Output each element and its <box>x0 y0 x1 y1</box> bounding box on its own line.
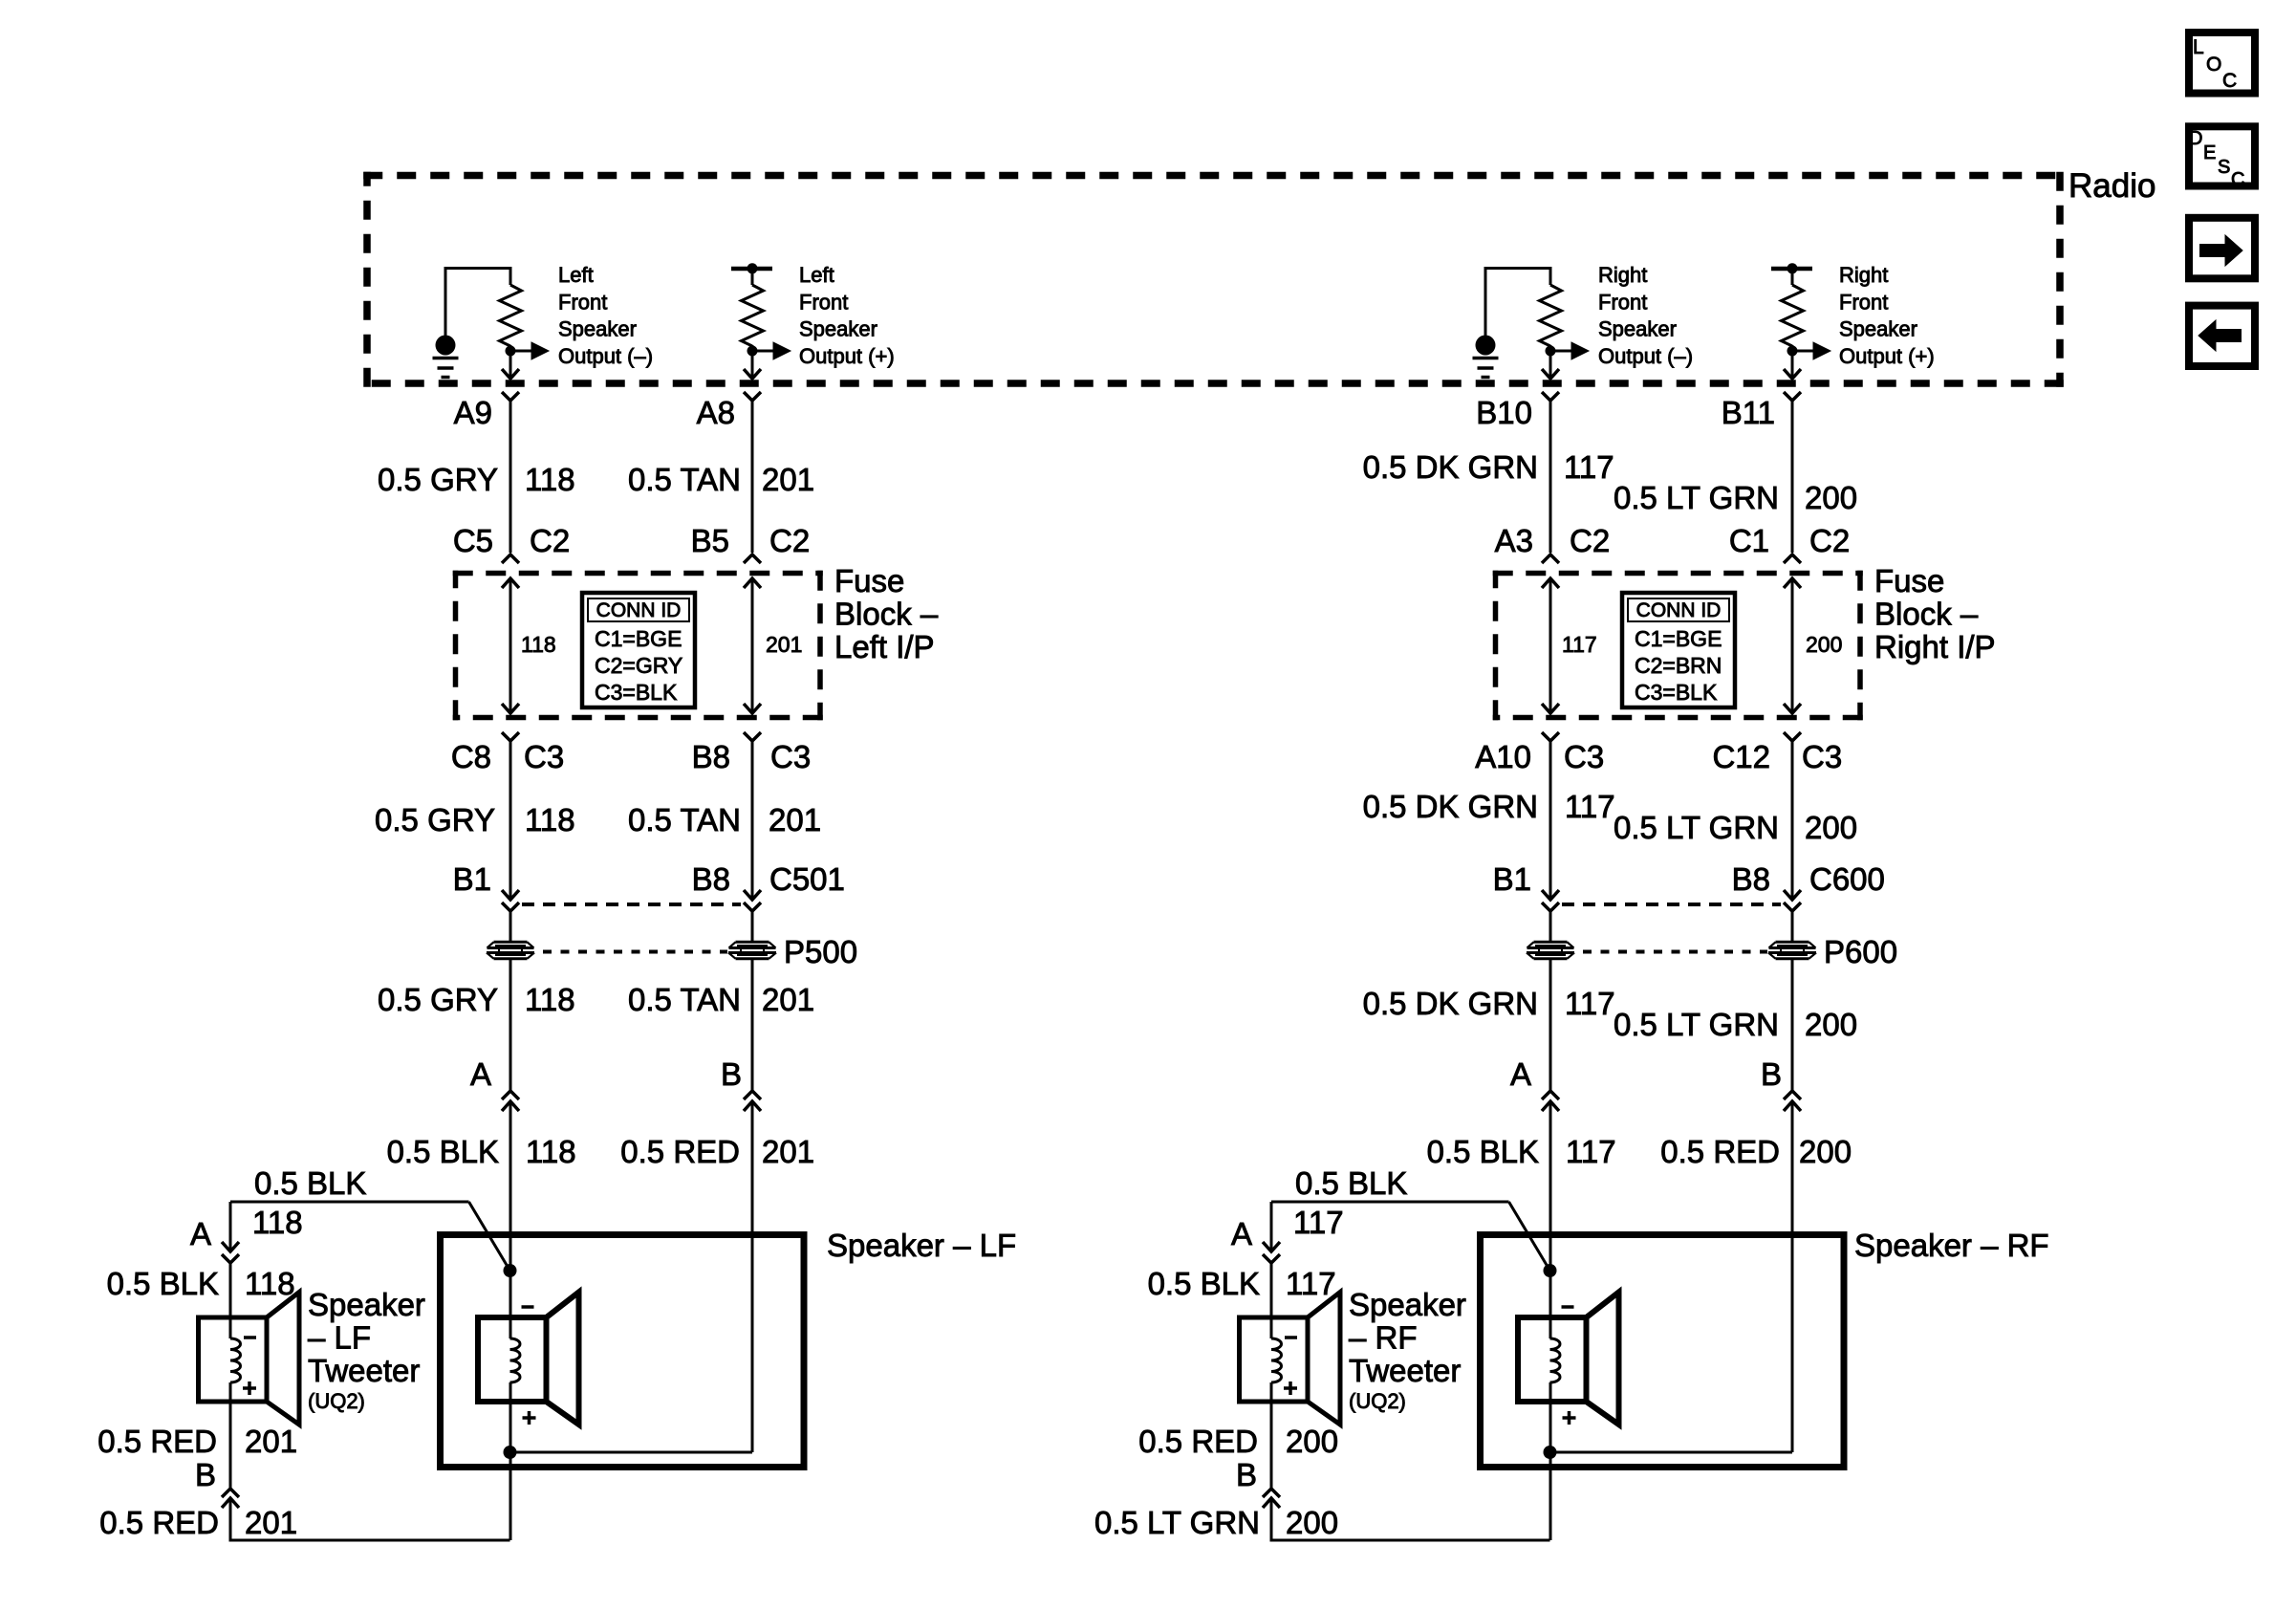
svg-text:0.5 BLK: 0.5 BLK <box>254 1165 366 1201</box>
svg-text:Tweeter: Tweeter <box>308 1353 420 1388</box>
svg-text:Output (+): Output (+) <box>799 344 895 368</box>
svg-text:200: 200 <box>1286 1424 1338 1459</box>
svg-text:117: 117 <box>1565 789 1615 824</box>
svg-text:P500: P500 <box>784 934 857 969</box>
svg-text:0.5 RED: 0.5 RED <box>99 1505 219 1540</box>
svg-text:B11: B11 <box>1722 395 1775 430</box>
svg-text:C8: C8 <box>451 739 491 774</box>
svg-text:200: 200 <box>1286 1505 1338 1540</box>
svg-text:117: 117 <box>1293 1205 1344 1240</box>
svg-text:Left: Left <box>558 263 594 287</box>
svg-text:0.5 TAN: 0.5 TAN <box>628 802 741 838</box>
svg-text:201: 201 <box>766 632 802 657</box>
svg-text:Right: Right <box>1598 263 1647 287</box>
svg-text:118: 118 <box>525 462 575 497</box>
svg-text:117: 117 <box>1564 449 1614 485</box>
svg-text:A: A <box>470 1056 491 1092</box>
svg-text:200: 200 <box>1806 632 1842 657</box>
svg-text:200: 200 <box>1805 1007 1857 1042</box>
svg-text:C2: C2 <box>530 523 570 558</box>
svg-text:Fuse: Fuse <box>1874 563 1944 598</box>
svg-text:(UQ2): (UQ2) <box>308 1389 365 1413</box>
svg-text:O: O <box>2206 54 2221 76</box>
svg-text:Output (–): Output (–) <box>558 344 653 368</box>
svg-text:0.5 DK GRN: 0.5 DK GRN <box>1363 789 1538 824</box>
svg-text:C: C <box>2222 70 2237 92</box>
svg-text:Speaker: Speaker <box>558 317 637 341</box>
svg-text:D: D <box>2189 128 2202 149</box>
svg-text:C: C <box>2231 169 2244 190</box>
svg-text:0.5 DK GRN: 0.5 DK GRN <box>1363 986 1538 1021</box>
svg-text:200: 200 <box>1799 1134 1852 1169</box>
svg-text:200: 200 <box>1805 810 1857 845</box>
svg-text:B8: B8 <box>1732 861 1770 897</box>
svg-text:Block –: Block – <box>834 597 939 632</box>
svg-text:0.5 BLK: 0.5 BLK <box>107 1266 219 1301</box>
svg-text:118: 118 <box>525 982 575 1017</box>
svg-text:C12: C12 <box>1712 739 1770 774</box>
svg-text:0.5 LT GRN: 0.5 LT GRN <box>1614 810 1779 845</box>
svg-text:117: 117 <box>1562 632 1597 657</box>
svg-text:Block –: Block – <box>1874 597 1979 632</box>
svg-text:C5: C5 <box>453 523 493 558</box>
svg-text:0.5 BLK: 0.5 BLK <box>1148 1266 1260 1301</box>
svg-text:Output (–): Output (–) <box>1598 344 1693 368</box>
svg-text:Left: Left <box>799 263 834 287</box>
svg-text:118: 118 <box>245 1266 295 1301</box>
svg-text:Front: Front <box>1839 290 1888 314</box>
svg-text:Front: Front <box>558 290 607 314</box>
svg-text:C1=BGE: C1=BGE <box>1635 626 1722 651</box>
svg-text:0.5 DK GRN: 0.5 DK GRN <box>1363 449 1538 485</box>
svg-text:201: 201 <box>762 462 814 497</box>
svg-text:0.5 RED: 0.5 RED <box>1660 1134 1780 1169</box>
svg-text:B: B <box>1236 1457 1257 1492</box>
svg-text:Fuse: Fuse <box>834 563 904 598</box>
svg-text:Front: Front <box>799 290 848 314</box>
svg-text:C2: C2 <box>1809 523 1850 558</box>
svg-text:C3: C3 <box>1802 739 1842 774</box>
svg-text:0.5 TAN: 0.5 TAN <box>628 462 741 497</box>
svg-text:0.5 LT GRN: 0.5 LT GRN <box>1614 480 1779 515</box>
svg-text:B5: B5 <box>691 523 729 558</box>
svg-text:0.5 GRY: 0.5 GRY <box>375 802 495 838</box>
svg-text:Right I/P: Right I/P <box>1874 629 1996 664</box>
svg-text:S: S <box>2218 157 2230 178</box>
svg-text:E: E <box>2203 142 2216 163</box>
svg-text:Tweeter: Tweeter <box>1349 1353 1461 1388</box>
svg-text:0.5 BLK: 0.5 BLK <box>1427 1134 1539 1169</box>
svg-text:B8: B8 <box>692 739 730 774</box>
svg-text:0.5 RED: 0.5 RED <box>97 1424 217 1459</box>
svg-text:C3: C3 <box>1564 739 1604 774</box>
svg-text:Radio: Radio <box>2069 167 2155 205</box>
svg-text:B: B <box>195 1457 216 1492</box>
svg-text:Left I/P: Left I/P <box>834 629 935 664</box>
svg-text:Front: Front <box>1598 290 1647 314</box>
svg-text:201: 201 <box>762 982 814 1017</box>
svg-text:B1: B1 <box>453 861 491 897</box>
svg-text:118: 118 <box>526 1134 576 1169</box>
svg-text:201: 201 <box>245 1424 297 1459</box>
svg-text:A3: A3 <box>1495 523 1533 558</box>
svg-text:0.5 GRY: 0.5 GRY <box>378 462 498 497</box>
svg-text:118: 118 <box>521 632 556 657</box>
svg-text:– RF: – RF <box>1349 1320 1418 1356</box>
svg-text:C2: C2 <box>769 523 810 558</box>
svg-text:0.5 RED: 0.5 RED <box>1138 1424 1258 1459</box>
svg-text:0.5 LT GRN: 0.5 LT GRN <box>1614 1007 1779 1042</box>
svg-text:Right: Right <box>1839 263 1888 287</box>
svg-text:118: 118 <box>525 802 575 838</box>
svg-text:201: 201 <box>762 1134 814 1169</box>
svg-text:Speaker – LF: Speaker – LF <box>827 1228 1016 1263</box>
svg-text:A9: A9 <box>454 395 492 430</box>
svg-text:C1: C1 <box>1729 523 1769 558</box>
svg-text:A: A <box>1231 1216 1252 1251</box>
svg-text:118: 118 <box>252 1205 303 1240</box>
svg-text:Speaker: Speaker <box>308 1287 425 1322</box>
svg-text:CONN ID: CONN ID <box>596 599 682 621</box>
svg-text:C3: C3 <box>770 739 811 774</box>
svg-text:B8: B8 <box>692 861 730 897</box>
svg-text:A: A <box>1510 1056 1531 1092</box>
svg-text:B: B <box>721 1056 742 1092</box>
svg-text:A: A <box>190 1216 211 1251</box>
svg-text:– LF: – LF <box>308 1320 371 1356</box>
svg-text:117: 117 <box>1565 986 1615 1021</box>
svg-text:B10: B10 <box>1476 395 1532 430</box>
svg-text:0.5 LT GRN: 0.5 LT GRN <box>1094 1505 1260 1540</box>
svg-text:C2: C2 <box>1570 523 1610 558</box>
svg-text:0.5 BLK: 0.5 BLK <box>387 1134 499 1169</box>
svg-text:C501: C501 <box>769 861 845 897</box>
svg-text:Output (+): Output (+) <box>1839 344 1935 368</box>
svg-text:0.5 RED: 0.5 RED <box>620 1134 740 1169</box>
svg-text:B: B <box>1761 1056 1782 1092</box>
svg-text:201: 201 <box>769 802 821 838</box>
svg-text:C3: C3 <box>524 739 564 774</box>
svg-text:(UQ2): (UQ2) <box>1349 1389 1406 1413</box>
svg-text:201: 201 <box>245 1505 297 1540</box>
svg-text:C600: C600 <box>1809 861 1885 897</box>
svg-text:L: L <box>2193 36 2204 58</box>
svg-text:Speaker – RF: Speaker – RF <box>1854 1228 2049 1263</box>
svg-text:C2=GRY: C2=GRY <box>595 653 682 678</box>
svg-text:200: 200 <box>1805 480 1857 515</box>
svg-text:Speaker: Speaker <box>799 317 877 341</box>
svg-text:117: 117 <box>1286 1266 1336 1301</box>
svg-text:0.5 TAN: 0.5 TAN <box>628 982 741 1017</box>
svg-text:C1=BGE: C1=BGE <box>595 626 682 651</box>
svg-text:0.5 GRY: 0.5 GRY <box>378 982 498 1017</box>
svg-text:C3=BLK: C3=BLK <box>595 680 678 705</box>
svg-text:C3=BLK: C3=BLK <box>1635 680 1718 705</box>
svg-text:A10: A10 <box>1475 739 1531 774</box>
svg-text:Speaker: Speaker <box>1839 317 1917 341</box>
svg-text:P600: P600 <box>1824 934 1897 969</box>
svg-text:C2=BRN: C2=BRN <box>1635 653 1722 678</box>
svg-text:CONN ID: CONN ID <box>1636 599 1722 621</box>
svg-text:Speaker: Speaker <box>1349 1287 1466 1322</box>
svg-text:0.5 BLK: 0.5 BLK <box>1295 1165 1407 1201</box>
svg-text:Speaker: Speaker <box>1598 317 1677 341</box>
svg-text:B1: B1 <box>1493 861 1531 897</box>
svg-text:A8: A8 <box>697 395 735 430</box>
svg-text:117: 117 <box>1566 1134 1616 1169</box>
